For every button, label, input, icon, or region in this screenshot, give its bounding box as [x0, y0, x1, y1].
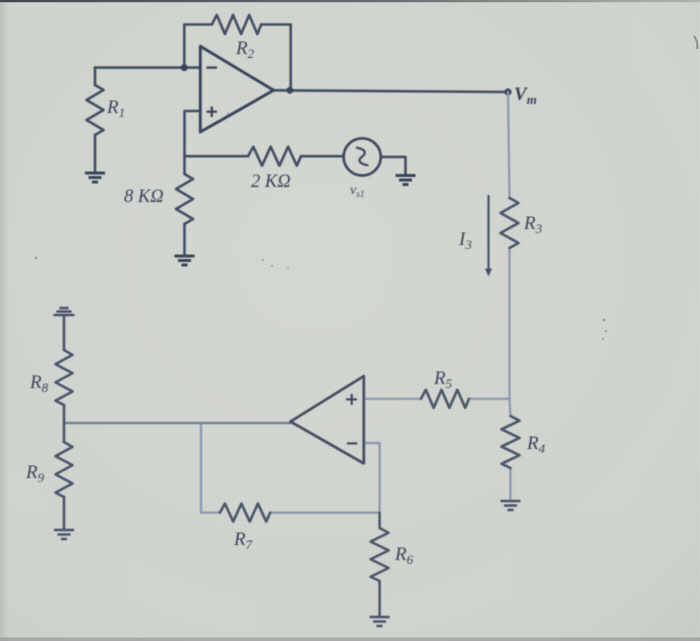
wire minus node to R7 [270, 511, 379, 513]
resistor 2 Kohm [248, 147, 301, 166]
power terminal above R8 (inverted ground) [55, 308, 74, 315]
wire R1 top drop [94, 68, 97, 85]
U1 minus sign [207, 66, 218, 68]
wire Vm down to R3 [508, 92, 510, 198]
svg-text:8 KΩ: 8 KΩ [124, 187, 164, 207]
ground below R6 [370, 617, 390, 626]
wire R5 to vertical branch [469, 398, 510, 400]
resistor R8 [56, 350, 73, 405]
wire R8 to junction [63, 405, 66, 423]
faint photo artifacts [694, 36, 697, 49]
resistor R6 [371, 513, 389, 616]
wire R7 to output tap [201, 423, 220, 513]
ground below 8K [175, 256, 195, 265]
wire op-amp output to Vm [274, 90, 508, 92]
junction node output [287, 87, 294, 94]
op-amp U1 [200, 46, 273, 132]
op-amp U2 [290, 376, 363, 463]
source vs1 circle [344, 138, 381, 175]
wire R9 to ground [63, 497, 66, 529]
U2 plus sign [346, 394, 357, 405]
ground below R1 [85, 173, 105, 182]
U1 plus sign [207, 107, 218, 118]
wire R4 to ground [509, 468, 511, 500]
resistor R7 [220, 504, 270, 522]
wire source to ground [381, 157, 406, 175]
wire 8K bottom [183, 224, 186, 255]
source sine glyph [357, 148, 368, 165]
resistor R2 [212, 15, 261, 34]
wire 8K top [183, 156, 186, 174]
junction node minus input [181, 64, 188, 71]
resistor R3 [501, 198, 519, 248]
wire feedback left vertical [184, 25, 212, 68]
ground below R9 [54, 530, 74, 539]
wire junction to R4 [510, 399, 511, 416]
wire junction to R9 [63, 423, 66, 442]
U2 minus sign [347, 442, 357, 444]
resistor R9 [56, 442, 73, 497]
wire 2K to source [301, 155, 344, 158]
current arrow I3 [485, 195, 492, 277]
wire R1 bottom [94, 135, 97, 172]
resistor R1 [87, 85, 104, 135]
resistor 8 Kohm [176, 174, 193, 224]
wire U2 plus input to R5 [364, 398, 421, 400]
node Vm dot [504, 88, 511, 95]
wire minus-input horizontal [95, 66, 200, 69]
resistor R5 [421, 390, 469, 408]
wire U2 minus branch [364, 443, 380, 513]
wire plus-input [185, 111, 201, 156]
svg-text:2 KΩ: 2 KΩ [251, 172, 291, 192]
ground below R4 [501, 501, 521, 510]
wire feedback right [261, 25, 290, 91]
wire power to R8 [63, 315, 66, 350]
wire R3 to R5 junction [508, 248, 510, 399]
ground right of source [396, 176, 416, 185]
resistor R4 [502, 416, 520, 468]
wire to 2K resistor [185, 155, 249, 158]
wire U2 output run [64, 422, 290, 424]
